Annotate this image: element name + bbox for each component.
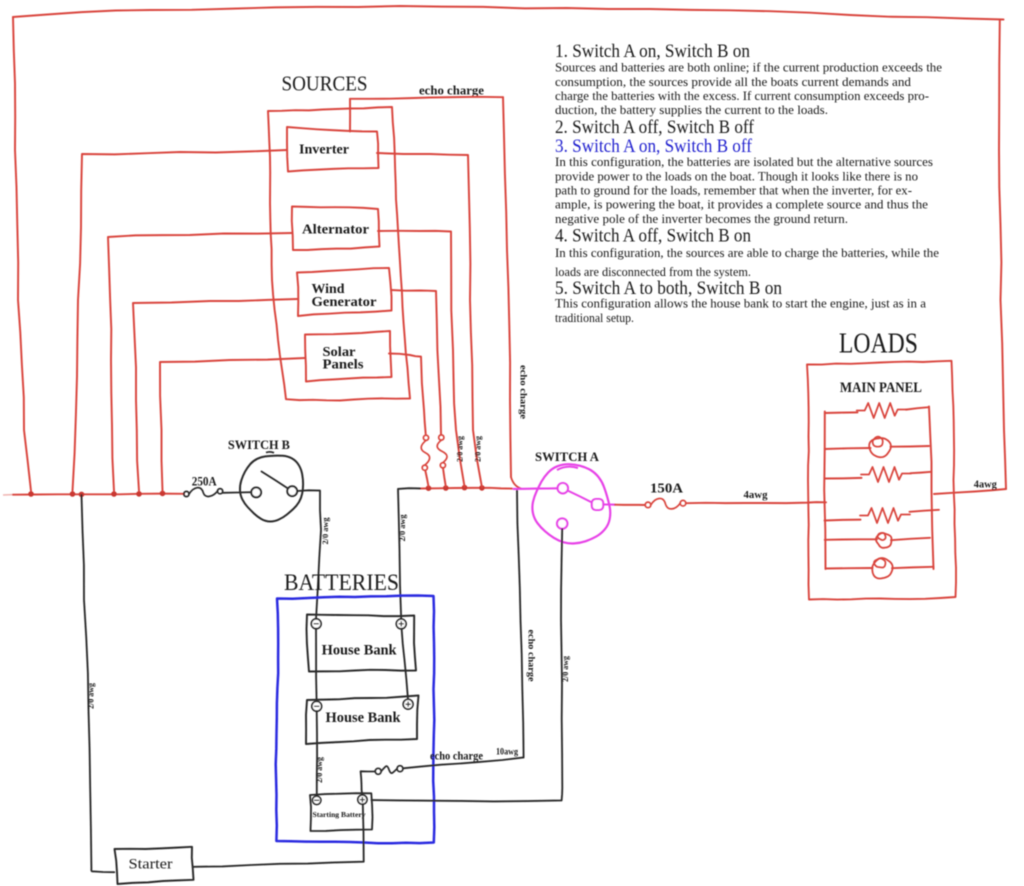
source box: Wind Generator <box>297 268 392 316</box>
switch SW-A body <box>532 464 610 543</box>
svg-text:traditional setup.: traditional setup. <box>555 311 634 325</box>
junction: bus / alternator drop right <box>462 485 468 491</box>
svg-text:echo charge: echo charge <box>518 365 528 419</box>
wire: HB2- to starting battery - <box>316 711 318 796</box>
sources enclosure box <box>268 107 410 401</box>
switch SW-B terminal 2 <box>287 486 297 496</box>
switch SW-B terminal 1 <box>251 488 261 498</box>
switch SW-A pen tail <box>557 467 578 470</box>
wire: bus to house bank plus <box>398 488 420 619</box>
battery HB2 terminal plus <box>403 699 413 709</box>
wire: alternator left feed <box>108 233 292 491</box>
svg-text:10awg: 10awg <box>496 747 518 757</box>
wire: echo fuse to starting battery plus <box>361 771 375 795</box>
svg-text:echo charge: echo charge <box>419 84 484 98</box>
battery: House Bank 1 box <box>307 615 417 672</box>
battery HB1 terminal minus <box>311 619 321 629</box>
wire: echo charge black vertical <box>517 490 524 757</box>
junction: bus / wind drop <box>136 491 142 497</box>
svg-text:150A: 150A <box>650 481 683 496</box>
svg-text:4awg: 4awg <box>744 490 768 501</box>
source box: Alternator <box>292 207 380 251</box>
switch SW-B nub <box>266 451 274 454</box>
fuse F2 150A <box>645 502 651 508</box>
panel row 4 wire <box>825 519 861 522</box>
svg-text:In this configuration, the bat: In this configuration, the batteries are… <box>555 155 933 169</box>
wire: echo charge link to inverter <box>349 99 351 132</box>
panel right rail <box>929 407 934 570</box>
wire: 150A fuse to main panel <box>686 502 826 503</box>
wire: fuse to switch B <box>223 491 253 494</box>
lamp load 6 <box>872 558 892 579</box>
fuse: wind drop fuse <box>439 435 444 440</box>
svg-text:4awg: 4awg <box>974 480 997 491</box>
batteries enclosure (blue) <box>276 596 435 844</box>
svg-text:echo charge: echo charge <box>526 630 536 682</box>
wire: HB1+ to HB2+ <box>402 629 408 700</box>
wire: echo charge vertical <box>503 97 511 477</box>
svg-text:This configuration allows the: This configuration allows the house bank… <box>555 297 926 311</box>
resistor load 3 <box>861 467 911 482</box>
wire: switch A output stub <box>604 503 616 505</box>
battery HB1 terminal plus <box>396 619 406 629</box>
svg-text:Starter: Starter <box>129 857 173 873</box>
wire: big red loop left border <box>13 17 31 491</box>
wire: wind right drop (to fuse) <box>391 290 441 434</box>
wire: echo charge top horizontal <box>350 97 503 99</box>
wire: echo charge hook into bus <box>511 477 521 489</box>
panel row 1 wire <box>825 411 858 414</box>
source box: Inverter <box>287 127 379 172</box>
panel row 2 wire <box>825 448 871 449</box>
svg-text:consumption, the sources provi: consumption, the sources provide all the… <box>555 75 912 89</box>
svg-text:3. Switch A on, Switch B off: 3. Switch A on, Switch B off <box>555 137 753 157</box>
junction: bus / solar fused drop <box>426 485 432 491</box>
svg-text:House Bank: House Bank <box>322 643 398 659</box>
battery HB2 terminal minus <box>312 701 322 711</box>
wire: switch A to starting battery plus <box>372 529 563 801</box>
wire: bus to starter (long left) <box>82 495 115 872</box>
fuse: solar drop fuse <box>423 435 428 440</box>
wire: solar right drop (to fuse) <box>389 354 426 435</box>
svg-text:4. Switch A off, Switch B on: 4. Switch A off, Switch B on <box>555 227 751 247</box>
fuse: echo charge fuse <box>375 768 381 774</box>
wire: starting battery to starter <box>194 804 364 867</box>
junction: bus / border-left <box>28 491 34 497</box>
svg-text:Panels: Panels <box>323 357 364 372</box>
svg-text:1. Switch A on, Switch B on: 1. Switch A on, Switch B on <box>555 42 750 62</box>
svg-text:loads are disconnected from th: loads are disconnected from the system. <box>555 265 751 279</box>
svg-text:2. Switch A off, Switch B off: 2. Switch A off, Switch B off <box>555 118 755 138</box>
wire: wind fuse to bus <box>443 468 446 487</box>
wire: big red loop right border <box>999 20 1006 489</box>
junction: bus / starter feed <box>79 492 85 498</box>
svg-text:echo charge: echo charge <box>430 749 484 763</box>
panel row 6 wire <box>826 567 873 570</box>
svg-text:duction, the battery supplies: duction, the battery supplies the curren… <box>555 103 828 117</box>
junction: bus / inverter drop <box>70 491 76 497</box>
svg-text:negative pole of the inverter: negative pole of the inverter becomes th… <box>555 212 848 226</box>
wire: faint left stub of positive bus <box>3 494 14 496</box>
svg-text:charge the batteries with the: charge the batteries with the excess. If… <box>555 89 929 103</box>
svg-text:SWITCH A: SWITCH A <box>535 449 600 464</box>
svg-text:BATTERIES: BATTERIES <box>284 570 399 595</box>
wire: inverter right drop <box>377 153 482 487</box>
svg-text:In this configuration, the sou: In this configuration, the sources are a… <box>555 246 939 260</box>
resistor load 4 <box>860 508 910 523</box>
wire: solar left feed <box>160 358 305 491</box>
main panel outer box <box>807 361 956 600</box>
svg-text:Alternator: Alternator <box>302 223 369 238</box>
svg-text:LOADS: LOADS <box>839 329 918 360</box>
svg-text:2/0 awg: 2/0 awg <box>560 655 570 682</box>
wire: HB1- to HB2- <box>315 629 318 702</box>
wire: stub to 150A fuse <box>615 504 645 506</box>
svg-text:2/0 awg: 2/0 awg <box>455 435 465 462</box>
svg-text:path to ground for the loads,: path to ground for the loads, remember t… <box>555 184 912 198</box>
svg-text:2/0 awg: 2/0 awg <box>397 514 407 542</box>
switch SW-A terminal 1 <box>558 483 568 493</box>
switch SW-A terminal 2 <box>592 499 603 510</box>
lamp load 2 <box>869 438 891 457</box>
svg-text:ample, is powering the boat, i: ample, is powering the boat, it provides… <box>555 198 928 212</box>
lamp load 5 <box>876 533 892 548</box>
svg-text:2/0 awg: 2/0 awg <box>314 756 324 783</box>
starter box <box>115 847 194 884</box>
junction: bus / solar drop <box>160 491 166 497</box>
svg-text:House Bank: House Bank <box>326 710 402 726</box>
switch SW-A lever <box>568 491 594 504</box>
panel row 3 wire <box>825 477 862 480</box>
junction: bus / alternator drop <box>111 491 117 497</box>
svg-text:2/0 awg: 2/0 awg <box>86 682 96 709</box>
wire: bus into switch A (magenta) <box>514 487 559 490</box>
wire: red positive bus (left section) <box>13 494 184 495</box>
svg-text:Generator: Generator <box>312 294 377 309</box>
svg-text:2/0 awg: 2/0 awg <box>320 517 330 545</box>
svg-text:MAIN PANEL: MAIN PANEL <box>840 380 922 396</box>
wire: 4awg feed from right border into main panel <box>934 489 1006 494</box>
switch SW-A terminal 3 <box>557 518 567 528</box>
source box: Solar Panels <box>305 331 392 382</box>
switch SW-B lever <box>262 472 289 489</box>
svg-text:Sources and batteries are both: Sources and batteries are both online; i… <box>555 61 942 75</box>
wire: wind left feed <box>133 299 297 491</box>
wire: big red loop top border <box>13 6 1004 20</box>
wire: solar fuse to bus <box>425 471 428 487</box>
svg-text:250A: 250A <box>192 475 217 489</box>
svg-text:2/0 awg: 2/0 awg <box>473 435 483 462</box>
svg-text:SWITCH B: SWITCH B <box>228 437 290 452</box>
panel left rail <box>824 412 825 570</box>
fuse F1 250A <box>184 491 189 496</box>
wire: red positive bus (right section) <box>420 487 512 490</box>
wire: switch B to house bank minus <box>297 490 321 619</box>
svg-text:Starting Battery: Starting Battery <box>313 810 366 819</box>
wire: echo fuse to vertical <box>403 757 524 768</box>
svg-text:Inverter: Inverter <box>299 143 349 158</box>
resistor load 1 <box>857 403 907 418</box>
battery: House Bank 2 box <box>306 696 419 745</box>
svg-text:provide power to the loads on: provide power to the loads on the boat. … <box>555 169 918 183</box>
battery SB terminal minus <box>313 796 321 804</box>
panel row 5 wire <box>825 538 877 541</box>
junction: bus / wind fused drop <box>443 485 449 491</box>
battery SB terminal plus <box>358 795 367 804</box>
wire: alternator right drop <box>378 231 465 487</box>
battery: Starting Battery box <box>310 793 373 831</box>
wire: inverter left feed <box>73 150 288 491</box>
svg-text:SOURCES: SOURCES <box>282 72 368 96</box>
junction: bus / inverter drop right <box>479 485 485 491</box>
switch SW-B body <box>240 456 303 522</box>
